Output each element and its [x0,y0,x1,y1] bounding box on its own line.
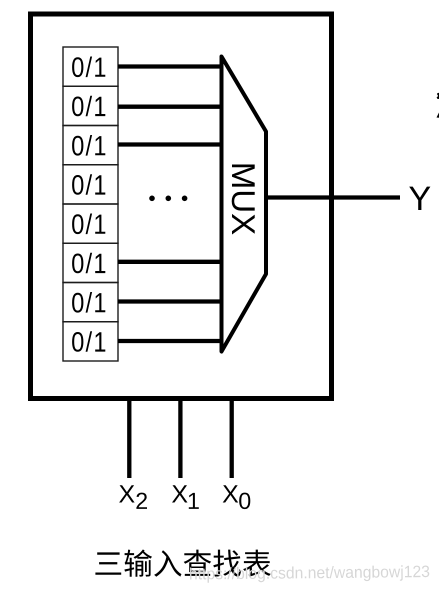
value label 0/1 cell M6 [72,253,105,273]
clipped glyph fragment bottom [437,113,439,118]
wire cell1 to MUX [118,64,223,68]
value label 0/1 cell M2 [72,96,105,117]
memory cell M7 [63,283,118,322]
value label 0/1 cell M1 [72,57,105,78]
value label 0/1 cell M7 [72,292,105,313]
MUX label [232,165,255,235]
input wire X2 [127,396,131,478]
node Y label [409,187,430,210]
memory cell M1 [63,47,118,86]
LUT body rectangle [31,14,332,399]
caption: three-input lookup table [95,550,270,577]
wire cell6 to MUX [118,260,223,264]
multiplexer trapezoid [222,57,267,352]
output wire to Y [266,195,400,199]
memory cell M5 [63,204,118,243]
memory cell M6 [63,243,118,282]
watermark URL [190,565,429,582]
wire cell3 to MUX [118,142,223,146]
value label 0/1 cell M5 [72,214,105,235]
memory cell M2 [63,86,118,125]
memory cell M8 [63,322,118,361]
input label X0 [223,485,251,509]
ellipsis dots (omitted cells) [149,196,187,202]
clipped glyph fragment top [437,93,439,99]
memory cell M3 [63,126,118,165]
value label 0/1 cell M8 [72,331,105,352]
input wire X0 [230,396,234,478]
memory cell M4 [63,165,118,204]
wires: cell outputs to MUX data inputs [118,67,223,342]
input label X1 [172,485,199,509]
value label 0/1 cell M4 [72,174,105,195]
input wire X1 [178,396,182,478]
wire cell8 to MUX [118,339,223,343]
value label 0/1 cell M3 [72,135,105,156]
wire cell7 to MUX [118,299,223,303]
input label X2 [119,485,147,509]
wire cell2 to MUX [118,105,223,109]
